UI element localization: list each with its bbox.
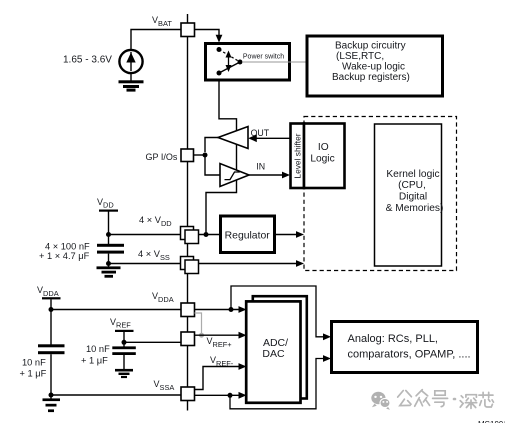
wire battery source to VBAT pin [131,30,181,50]
号 [433,391,448,407]
arrow VDDA into analog box [323,333,331,340]
svg-text:Power switch: Power switch [243,53,284,60]
wire VREF+ pin to ADC [195,334,242,336]
VDD supply bar [99,210,118,212]
svg-text:Regulator: Regulator [225,231,271,242]
label Analog lines [348,333,471,361]
wire VREF- from VSSA pin to ADC [195,367,242,390]
svg-text:DAC: DAC [262,348,285,360]
svg-text:10 nF: 10 nF [22,358,46,368]
wire VDD bar to cap [108,212,110,245]
svg-text:+ 1 μF: + 1 μF [20,368,47,378]
wire VDDA node to VDDA pin [51,309,181,311]
wire cap to VSS node [108,254,110,267]
ground below VREF cap [115,369,133,378]
VREF supply bar [115,330,134,332]
wire regulator to kernel domain [275,234,297,236]
node VSSA routing dot [228,393,233,398]
wire VDDA routed over ADC to analog [231,286,325,337]
pin VDDA [181,303,195,317]
arrow VSSA into analog box [323,355,331,362]
buffer OUT (output driver) [218,127,248,149]
watermark wechat icon [371,392,390,410]
svg-text:ADC/: ADC/ [263,337,288,349]
svg-text:1.65 - 3.6V: 1.65 - 3.6V [63,54,112,65]
watermark text 公众号 · 深芯 [398,390,494,409]
switch contact dashed throw [219,50,240,63]
wire VSSA node to VSSA pin [51,394,181,396]
svg-text:Logic: Logic [310,154,334,165]
switch toggle double arrow [226,51,232,73]
schmitt hysteresis glyph [225,172,240,180]
arrow VREF- into ADC [239,363,247,370]
label Kernel logic lines [386,169,444,214]
ground below VDD cap [97,266,121,277]
ADC/DAC stacked box back [253,296,307,398]
middot [454,398,455,401]
svg-text:Wake-up logic: Wake-up logic [342,62,405,73]
pin VBAT [181,23,195,37]
wire IN buffer to level shifter [249,174,284,176]
wire VDDA cap to VSSA node [50,354,52,398]
switch contact solid throw [219,62,240,73]
capacitor 4x100nF+4.7uF plates [97,244,124,254]
pin VSSA [181,387,195,401]
dashed kernel-domain box [304,117,457,271]
node VDDA junction dot [49,307,54,312]
wire VSSA routed under ADC to analog [230,359,325,409]
wire OUT buffer tip to GPIO node [205,138,218,153]
svg-text:(LSE,RTC,: (LSE,RTC, [336,51,384,62]
wire VDD node to VDD pins [109,234,182,236]
arrow VREF+ into ADC [239,332,247,339]
pin VREF+ [181,332,195,346]
ground below battery source [119,80,144,91]
backup circuitry box [307,36,443,96]
wire VREF node to VREF+ pin [124,341,181,343]
svg-text:4 × 100 nF: 4 × 100 nF [45,242,90,252]
arrow into OUT buffer [248,135,257,143]
wire rail VSS to VDDA pin [187,270,189,304]
switch node dot common [238,60,243,65]
power switch box [206,44,290,81]
wire VDDA pin to ADC [195,309,242,311]
analog peripherals box [332,322,478,373]
pin GP I/Os [181,149,194,162]
svg-text:(CPU,: (CPU, [398,180,426,191]
公 [398,391,412,406]
svg-text:Kernel logic: Kernel logic [386,169,439,180]
wire level shifter to OUT buffer [254,137,290,139]
wire rail VBAT to GPIO [187,37,189,150]
IO logic box [304,124,345,189]
node VSSA junction dot [49,393,54,398]
label ADC/DAC [262,337,288,360]
node regulator input dot [204,232,209,237]
wire switch bottom to buffer supply [206,80,237,232]
wire rail bottom stub [187,401,189,411]
regulator box [221,216,275,253]
voltage source BT1 1.65-3.6V [119,50,142,73]
node GPIO junction dot [203,153,208,158]
node VDDA routing dot [229,307,234,312]
buffer IN (schmitt input) [220,164,249,187]
wire VREF cap to ground [123,355,125,370]
wire VSS pin to kernel domain [199,263,298,265]
arrow into level shifter [282,172,290,179]
wire switch common to backup circuitry (gray) [242,61,306,63]
wire source to ground [130,73,132,81]
node VSS junction dot [106,261,111,266]
wire VDDA bar to cap [50,299,52,344]
wire rail VDDA to VREF+ pin [187,317,189,333]
switch node dot top (VBAT) [217,47,222,52]
label Backup circuitry lines [332,41,410,83]
wire rail GPIO to VDD pins [187,161,189,227]
wire VSS node to VSS pins [109,263,182,265]
arrow into power switch top [216,35,223,43]
node VDD junction dot [106,232,111,237]
level shifter box [291,124,305,189]
svg-text:Backup circuitry: Backup circuitry [335,41,406,52]
芯 [479,392,494,407]
wire rail VREF+ to VSSA pin [187,346,189,388]
wire VBAT pin to power switch [195,30,220,41]
wire main VBAT rail top stub [187,14,189,23]
svg-text:Level shifter: Level shifter [292,133,302,178]
ground below VDDA cap [43,398,61,412]
switch node dot bottom (VDD) [217,71,222,76]
svg-text:Digital: Digital [399,192,427,203]
wire rail VDD to VSS pins [187,239,189,257]
pin 4xVSS (stacked) [181,257,199,274]
svg-text:GP I/Os: GP I/Os [146,152,178,162]
wire GPIO node to IN buffer [205,157,220,175]
svg-text:10 nF: 10 nF [86,344,110,354]
label IO Logic [310,142,334,164]
pin 4xVDD (stacked) [181,227,199,244]
svg-text:& Memories): & Memories) [386,203,444,214]
arrow regulator into dashed box [296,231,304,238]
ADC/DAC stacked box front [246,301,300,402]
wire GPIO pin to node [194,154,206,156]
wire VSSA pin to ADC [195,394,242,396]
arrow VDDA into ADC [239,306,247,313]
gray node dot on VREF+ wire [199,333,204,338]
svg-text:IN: IN [256,162,265,172]
arrow VSSA into ADC [239,392,247,399]
svg-text:comparators, OPAMP, ....: comparators, OPAMP, .... [348,349,471,361]
arrow VSS into dashed box [296,260,304,267]
深 [460,395,476,409]
capacitor VDDA 10nF+1uF plates [38,344,65,354]
kernel logic box [375,124,442,266]
svg-text:+ 1 × 4.7 μF: + 1 × 4.7 μF [39,251,90,261]
wire VREF bar to cap [123,332,125,347]
svg-text:Backup registers): Backup registers) [332,72,410,83]
svg-text:+ 1 μF: + 1 μF [81,356,108,366]
gray link VDDA to VREF+ [195,313,202,335]
svg-text:IO: IO [318,142,329,153]
svg-text:Analog: RCs, PLL,: Analog: RCs, PLL, [348,333,439,345]
capacitor VREF 10nF+1uF plates [112,346,136,355]
众 [415,390,430,407]
VDDA supply bar [42,297,61,299]
wire VDD pin to regulator [199,234,220,236]
node VREF junction dot [122,340,127,345]
